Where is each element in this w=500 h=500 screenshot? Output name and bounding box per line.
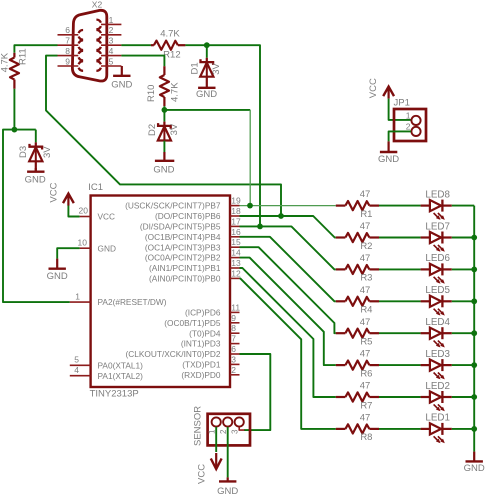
wire IC pin14 to R6: [240, 258, 336, 366]
wire LED8 to cathode bus: [452, 205, 474, 207]
wire node toward IC pin19: [164, 109, 250, 111]
svg-text:(OC1B/PCINT4)PB4: (OC1B/PCINT4)PB4: [145, 232, 221, 242]
resistor R12: [151, 28, 186, 60]
svg-text:1: 1: [109, 15, 114, 25]
connector JP1: [394, 97, 427, 141]
svg-text:X2: X2: [92, 0, 103, 10]
LED LED5: [421, 285, 452, 316]
ground at LED bus: [464, 452, 485, 474]
wire IC pin18 to R2: [240, 216, 336, 238]
junction node bus row 4: [471, 298, 477, 304]
junction node R10/D2: [162, 107, 168, 113]
wire node to D3 and PA2: [3, 130, 70, 303]
svg-text:(INT1)PD3: (INT1)PD3: [181, 339, 221, 349]
svg-text:47: 47: [360, 285, 371, 296]
X2 pin 8: [58, 46, 84, 60]
connector SENSOR: [193, 406, 250, 446]
svg-text:GND: GND: [217, 486, 238, 497]
svg-text:(USCK/SCK/PCINT7)PB7: (USCK/SCK/PCINT7)PB7: [125, 201, 221, 211]
svg-text:15: 15: [231, 237, 241, 247]
svg-text:GND: GND: [378, 154, 399, 165]
resistor R11: [0, 48, 29, 89]
svg-text:19: 19: [231, 196, 241, 206]
resistor R3: [336, 253, 379, 284]
wire R6 to LED3: [379, 364, 421, 366]
ground at D3: [25, 168, 46, 186]
svg-text:PA2(#RESET/DW): PA2(#RESET/DW): [98, 297, 167, 307]
svg-text:R1: R1: [360, 209, 372, 220]
svg-text:2: 2: [109, 25, 114, 35]
svg-text:IC1: IC1: [88, 182, 103, 193]
svg-text:LED2: LED2: [425, 381, 450, 392]
svg-text:18: 18: [231, 206, 241, 216]
wire R5 to LED4: [379, 332, 421, 334]
junction node at IC pin18: [278, 213, 284, 219]
op-amp-style IC1 TINY2313P box: [88, 182, 230, 399]
svg-text:R5: R5: [360, 337, 372, 348]
wire X2 pin3 to R12: [121, 44, 150, 46]
svg-text:4: 4: [74, 365, 79, 375]
svg-text:9: 9: [65, 56, 70, 66]
svg-text:1: 1: [406, 110, 411, 120]
svg-text:R11: R11: [18, 48, 29, 65]
LED LED3: [421, 349, 452, 380]
svg-text:PA1(XTAL2): PA1(XTAL2): [98, 371, 144, 381]
svg-text:SENSOR: SENSOR: [193, 406, 204, 446]
svg-text:4.7K: 4.7K: [170, 82, 181, 102]
connector X2 (DB9): [72, 0, 106, 81]
svg-text:(CLKOUT/XCK/INT0)PD2: (CLKOUT/XCK/INT0)PD2: [126, 349, 221, 359]
svg-text:(DI/SDA/PCINT5)PB5: (DI/SDA/PCINT5)PB5: [140, 222, 221, 232]
X2 pin 4: [96, 46, 121, 60]
svg-text:VCC: VCC: [48, 182, 59, 202]
wire LED1 to cathode bus: [452, 428, 474, 430]
svg-text:(AIN0/PCINT0)PB0: (AIN0/PCINT0)PB0: [149, 274, 221, 284]
svg-text:GND: GND: [111, 79, 132, 90]
svg-text:PA0(XTAL1): PA0(XTAL1): [98, 360, 144, 370]
SENSOR pin3 stub: [239, 427, 244, 430]
svg-text:3V: 3V: [42, 146, 53, 158]
IC1 left pin stubs and numbers: [70, 206, 91, 376]
svg-text:GND: GND: [98, 243, 116, 253]
svg-text:GND: GND: [464, 463, 485, 474]
wire IC pin17 to R3: [240, 226, 336, 269]
wire IC pin16 to R4: [240, 237, 336, 301]
X2 pin 1: [96, 15, 121, 29]
LED LED7: [421, 221, 452, 252]
wire node to IC pin17: [207, 45, 260, 226]
svg-text:2: 2: [231, 365, 236, 375]
svg-text:R12: R12: [163, 50, 180, 61]
LED LED6: [421, 253, 452, 284]
resistor R10: [146, 66, 181, 106]
junction node at R11 bottom: [12, 127, 18, 133]
wire X2 pin8 to IC pin18 (diagonal): [46, 56, 281, 216]
svg-text:11: 11: [231, 302, 240, 312]
svg-text:10: 10: [78, 237, 88, 247]
svg-text:LED1: LED1: [425, 413, 450, 424]
svg-text:47: 47: [360, 381, 371, 392]
resistor R7: [336, 381, 379, 412]
svg-text:7: 7: [231, 334, 236, 344]
junction node bus row 3: [471, 267, 477, 273]
svg-text:(ICP)PD6: (ICP)PD6: [185, 308, 221, 318]
LED LED4: [421, 317, 452, 348]
svg-text:5: 5: [74, 355, 79, 365]
svg-text:14: 14: [231, 248, 241, 258]
X2 pin 7: [58, 36, 84, 50]
svg-text:TINY2313P: TINY2313P: [90, 389, 139, 400]
wire IC pin13 to R7: [240, 268, 336, 397]
junction node bus row 7: [471, 394, 477, 400]
ground at JP1: [378, 141, 399, 164]
junction node bus row 6: [471, 362, 477, 368]
svg-text:20: 20: [79, 206, 89, 216]
svg-text:(RXD)PD0: (RXD)PD0: [181, 370, 221, 380]
wire (thin) pin19 row to R1: [240, 205, 336, 207]
svg-text:LED8: LED8: [425, 189, 450, 200]
svg-text:47: 47: [360, 189, 371, 200]
junction node R12/D1: [204, 42, 210, 48]
svg-text:16: 16: [231, 227, 241, 237]
wire SENSOR pin2 to ground: [227, 427, 229, 478]
X2 pin 3: [96, 36, 121, 50]
svg-text:47: 47: [360, 349, 371, 360]
VCC arrow at IC pin 20: [48, 182, 79, 216]
svg-text:(TXD)PD1: (TXD)PD1: [182, 360, 221, 370]
svg-text:JP1: JP1: [394, 97, 410, 108]
svg-text:(OC1A/PCINT3)PB3: (OC1A/PCINT3)PB3: [145, 242, 221, 252]
LED LED2: [421, 381, 452, 412]
svg-text:GND: GND: [196, 89, 217, 100]
svg-text:9: 9: [231, 313, 236, 323]
VCC arrow at SENSOR pin1: [197, 427, 222, 484]
wire X2 pin4 to R10: [121, 56, 164, 67]
svg-text:LED4: LED4: [425, 317, 450, 328]
svg-text:3: 3: [230, 429, 239, 434]
svg-text:LED5: LED5: [425, 285, 450, 296]
X2 pin 2: [96, 25, 121, 39]
svg-text:R8: R8: [360, 432, 372, 443]
X2 pin 5: [96, 56, 121, 70]
wire R2 to LED7: [379, 237, 421, 239]
junction node bus row 5: [471, 330, 477, 336]
svg-text:6: 6: [231, 344, 236, 354]
resistor R1: [336, 189, 379, 220]
wire LED2 to cathode bus: [452, 396, 474, 398]
svg-text:8: 8: [231, 323, 236, 333]
svg-text:VCC: VCC: [368, 78, 379, 98]
wire R12 to node: [185, 44, 206, 46]
svg-text:47: 47: [360, 221, 371, 232]
svg-text:LED7: LED7: [425, 221, 450, 232]
wire LED7 to cathode bus: [452, 237, 474, 239]
junction node at IC pin19: [247, 203, 253, 209]
svg-text:(T0)PD4: (T0)PD4: [189, 328, 221, 338]
wire R8 to LED1: [379, 428, 421, 430]
svg-text:(OC0A/PCINT2)PB2: (OC0A/PCINT2)PB2: [145, 253, 221, 263]
svg-text:2: 2: [219, 429, 228, 434]
svg-text:R10: R10: [146, 85, 157, 102]
svg-text:3V: 3V: [169, 123, 180, 135]
junction node at IC pin17: [257, 224, 263, 230]
svg-text:VCC: VCC: [98, 212, 116, 222]
resistor R6: [336, 349, 379, 380]
wire R11 to node: [13, 89, 15, 130]
X2 pin 6: [58, 25, 84, 39]
VCC arrow at JP1: [368, 78, 411, 120]
X2 pin 9: [58, 56, 84, 70]
IC1 right pin texts: [125, 201, 221, 380]
svg-text:R2: R2: [360, 241, 372, 252]
ground at X2 pin 5: [111, 66, 132, 90]
svg-text:12: 12: [231, 268, 241, 278]
wire LED3 to cathode bus: [452, 364, 474, 366]
svg-text:LED6: LED6: [425, 253, 450, 264]
svg-text:6: 6: [65, 25, 70, 35]
svg-text:17: 17: [231, 216, 241, 226]
svg-text:3: 3: [231, 354, 236, 364]
svg-text:LED3: LED3: [425, 349, 450, 360]
wire R4 to LED5: [379, 300, 421, 302]
svg-text:2: 2: [406, 121, 411, 131]
svg-text:GND: GND: [47, 271, 68, 282]
svg-text:(OC0B/T1)PD5: (OC0B/T1)PD5: [164, 318, 221, 328]
svg-text:D3: D3: [18, 146, 29, 158]
svg-text:3: 3: [109, 36, 114, 46]
wire (thin) down to pin19 row: [249, 110, 251, 206]
zener diode D1: [189, 45, 222, 87]
wire R1 to LED8: [379, 205, 421, 207]
resistor R4: [336, 285, 379, 316]
svg-text:(AIN1/PCINT1)PB1: (AIN1/PCINT1)PB1: [149, 263, 221, 273]
ground at SENSOR: [217, 477, 238, 496]
IC1 right pin stubs and numbers: [230, 196, 241, 375]
svg-text:GND: GND: [25, 175, 46, 186]
wire R3 to LED6: [379, 268, 421, 270]
IC1 left pin texts: [98, 212, 167, 381]
wire IC pin12 to R8: [240, 278, 336, 429]
svg-text:47: 47: [360, 413, 371, 424]
wire LED4 to cathode bus: [452, 332, 474, 334]
resistor R2: [336, 221, 379, 252]
wire IC pin6 to SENSOR pin3: [240, 354, 271, 430]
svg-text:R6: R6: [360, 368, 372, 379]
svg-text:4.7K: 4.7K: [160, 28, 180, 39]
svg-text:D2: D2: [147, 124, 158, 136]
ground at IC pin 10: [47, 248, 80, 282]
svg-text:1: 1: [75, 291, 80, 301]
ground at D1: [196, 88, 217, 100]
wire LED5 to cathode bus: [452, 300, 474, 302]
svg-text:4: 4: [109, 46, 114, 56]
svg-text:GND: GND: [153, 164, 174, 175]
cathode bus wire: [473, 206, 475, 452]
wire LED6 to cathode bus: [452, 268, 474, 270]
junction node bus row 8: [471, 426, 477, 432]
LED LED8: [421, 189, 452, 220]
svg-text:R4: R4: [360, 305, 372, 316]
resistor R8: [336, 413, 379, 444]
svg-text:1: 1: [207, 429, 216, 434]
junction node bus row 2: [471, 235, 477, 241]
ground at D2: [153, 161, 174, 176]
svg-text:13: 13: [231, 258, 241, 268]
wire IC pin15 to R5: [240, 247, 336, 333]
svg-text:3V: 3V: [211, 63, 222, 75]
svg-text:VCC: VCC: [197, 464, 208, 484]
wire X2 pin7 to R11: [14, 45, 57, 53]
wire JP1 pin2 to ground: [389, 131, 411, 141]
svg-text:7: 7: [65, 36, 70, 46]
svg-text:R7: R7: [360, 400, 372, 411]
wire R7 to LED2: [379, 396, 421, 398]
svg-text:D1: D1: [189, 62, 200, 74]
zener diode D2: [147, 110, 180, 160]
svg-text:47: 47: [360, 317, 371, 328]
svg-text:4.7K: 4.7K: [0, 52, 10, 72]
svg-text:5: 5: [109, 56, 114, 66]
svg-text:R3: R3: [360, 273, 372, 284]
resistor R5: [336, 317, 379, 348]
wire R10 to node: [163, 106, 165, 110]
zener diode D3: [18, 130, 53, 172]
svg-text:47: 47: [360, 253, 371, 264]
svg-text:(DO/PCINT6)PB6: (DO/PCINT6)PB6: [155, 211, 221, 221]
svg-text:8: 8: [65, 46, 70, 56]
LED LED1: [421, 413, 452, 444]
